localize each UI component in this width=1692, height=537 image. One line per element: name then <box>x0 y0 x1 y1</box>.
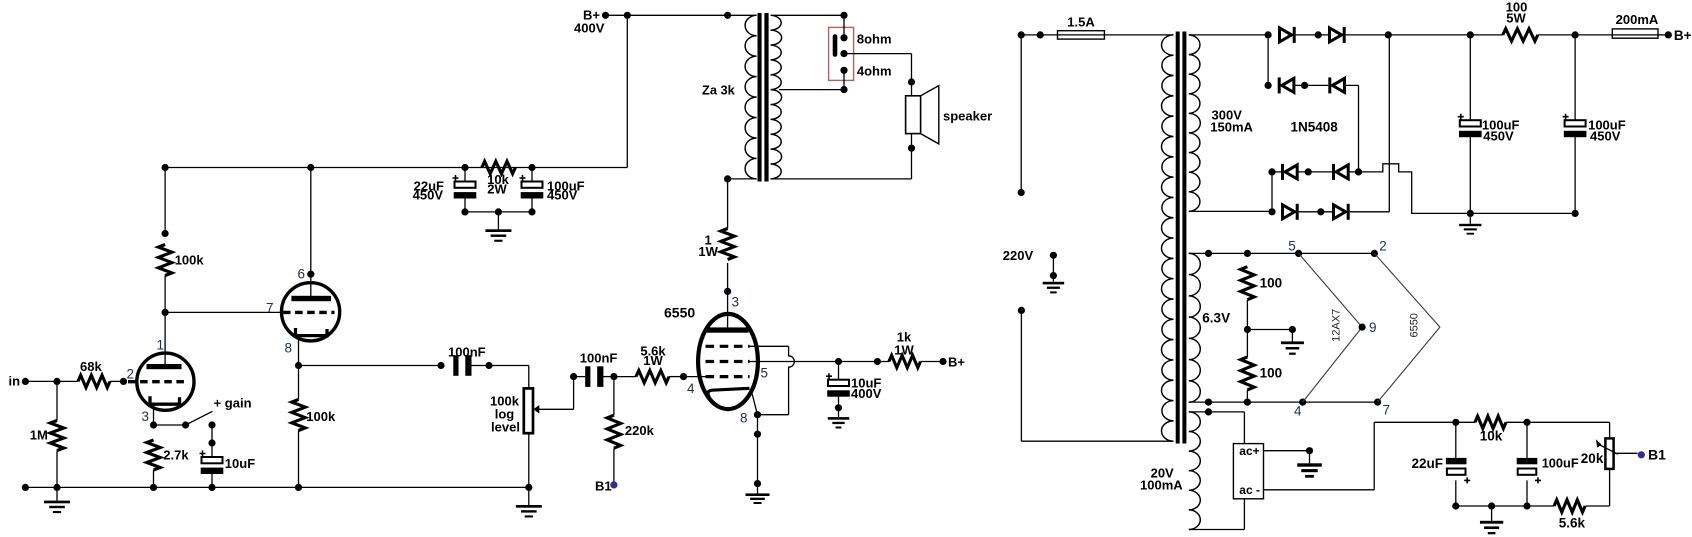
wire beam plates <box>750 345 789 347</box>
wire C1 drop <box>1469 35 1471 120</box>
ground bias <box>1480 521 1503 524</box>
node rail 2.7k <box>150 484 157 491</box>
wire V2 anode drop <box>310 168 312 297</box>
capacitor 10uF 400V <box>826 373 832 379</box>
wire ac+ to gnd <box>1264 450 1310 452</box>
node ac+ gnd <box>1306 447 1313 454</box>
pot wiper arrow <box>539 408 574 410</box>
node V2 pin6 <box>307 271 314 278</box>
diode D3 <box>1278 77 1281 93</box>
tube 6550 anode plate <box>706 327 749 332</box>
wire 68k to grid node <box>110 380 124 382</box>
node C1 top <box>1467 31 1474 38</box>
node switch left <box>182 421 189 428</box>
resistor 5.6k bias <box>1554 500 1585 512</box>
svg-text:2W: 2W <box>487 182 507 197</box>
wire pot to B1 <box>1614 452 1637 454</box>
diode D7 <box>1283 205 1295 219</box>
node bridge r4 left <box>1268 208 1275 215</box>
svg-text:4ohm: 4ohm <box>857 63 892 78</box>
node pin2 heater <box>1371 250 1378 257</box>
svg-text:1W: 1W <box>894 343 914 358</box>
wire anode supply rail <box>165 167 627 169</box>
wire 220k bottom <box>613 448 615 485</box>
wire 100k V2 bottom <box>298 431 300 488</box>
wire mains to fuse <box>1021 34 1057 36</box>
wire 4ohm to tap <box>843 70 845 89</box>
capacitor 22uF 450V <box>453 175 459 181</box>
wire beam drop with hop <box>789 346 795 414</box>
wire sec top to 8ohm <box>843 15 845 38</box>
ground mains earth <box>1043 282 1065 285</box>
node C2 top <box>1572 31 1579 38</box>
tube V2 grid <box>283 311 335 314</box>
capacitor 100uF 450V filter <box>520 175 526 181</box>
node pin5 heater <box>1295 250 1302 257</box>
svg-text:6550: 6550 <box>664 304 695 320</box>
wire OT primary bottom lead <box>728 178 757 180</box>
svg-text:100k: 100k <box>175 253 205 268</box>
node C10u top <box>208 439 215 446</box>
wire V1 grid2 coupling <box>165 311 281 313</box>
node grid V1 pin2 <box>120 378 127 385</box>
resistor 220k <box>607 415 621 448</box>
svg-text:100: 100 <box>1260 276 1283 291</box>
node pin7 heater <box>1374 399 1381 406</box>
node B+ out <box>1665 31 1672 38</box>
wire C2 drop <box>1574 35 1576 120</box>
wire beam to cathode <box>758 414 789 416</box>
svg-text:22uF: 22uF <box>1412 456 1444 471</box>
wire row2 corner <box>1345 84 1359 86</box>
svg-text:9: 9 <box>1369 320 1377 335</box>
svg-text:100uF: 100uF <box>1542 456 1579 471</box>
node 8ohm tap <box>840 34 847 41</box>
node rail V1 <box>162 164 169 171</box>
node earth top <box>1050 252 1057 259</box>
tube 6550 grid3 row <box>706 345 750 348</box>
ground 10uF 400V <box>828 417 850 420</box>
node input junction <box>53 378 60 385</box>
capacitor 100uF 450V first <box>1458 114 1464 120</box>
node B+ corner <box>624 12 631 19</box>
wire C10u400 top <box>838 362 840 380</box>
svg-text:1: 1 <box>157 338 165 353</box>
selector bar <box>833 37 838 55</box>
svg-text:3: 3 <box>142 409 150 424</box>
wire acgnd stem <box>1309 451 1311 464</box>
resistor 5.6k 1W <box>636 370 669 382</box>
wire B+ drop <box>626 15 628 167</box>
wire D3-D4 <box>1294 84 1328 86</box>
resistor 100 heater bottom <box>1241 357 1255 390</box>
svg-text:200mA: 200mA <box>1616 12 1659 27</box>
tube V2 cathode <box>296 328 328 336</box>
node pin4 heater <box>1299 399 1306 406</box>
selector red box <box>829 27 854 80</box>
resistor 2.7k <box>147 440 161 470</box>
wire pot bottom <box>528 434 530 488</box>
wire B+ rail to OT <box>627 14 756 16</box>
wire D7-D8 <box>1299 211 1332 213</box>
svg-text:400V: 400V <box>851 386 882 401</box>
wire mains L drop <box>1020 35 1022 193</box>
svg-text:7: 7 <box>266 301 274 316</box>
wire 220k top <box>613 377 615 416</box>
wire pin4 into tube <box>684 376 707 378</box>
node gnd rail C2 <box>1572 210 1579 217</box>
node D5 D6 <box>1305 168 1312 175</box>
capacitor 100uF 450V second <box>1563 114 1569 120</box>
wire row4 up <box>1350 211 1390 213</box>
svg-text:6: 6 <box>298 267 306 282</box>
wire cathode to switch <box>154 424 186 426</box>
svg-text:+ gain: + gain <box>214 396 252 411</box>
svg-text:6.3V: 6.3V <box>1202 311 1230 326</box>
wire CT to gnd <box>1247 329 1292 331</box>
tube V1 cathode <box>150 396 180 404</box>
node screen junction <box>835 358 842 365</box>
diode D4 <box>1328 77 1331 93</box>
node bridge plus <box>1385 31 1392 38</box>
wire R2 bottom <box>1246 390 1248 402</box>
wire bridge left bottom <box>1271 172 1273 212</box>
node heater top lead <box>1205 250 1212 257</box>
wire heater bottom bus <box>1189 401 1378 403</box>
node switch right <box>208 421 215 428</box>
wire junction to 5.6k <box>614 376 636 378</box>
wire C2 bottom <box>1574 137 1576 214</box>
wire C22u top <box>464 168 466 182</box>
wire bridge to caps <box>1388 34 1503 36</box>
svg-text:B+: B+ <box>948 354 965 369</box>
wire fuse to PT <box>1104 34 1173 36</box>
node in terminal <box>22 378 29 385</box>
svg-text:7: 7 <box>1383 403 1391 418</box>
svg-text:100nF: 100nF <box>448 345 486 360</box>
svg-text:B+: B+ <box>1674 28 1692 43</box>
node speaker tap mid <box>840 50 847 57</box>
wire junction to R 68k <box>57 380 78 382</box>
wire ac- to filter <box>1264 489 1375 491</box>
diode D2 <box>1330 28 1342 42</box>
node rail C100u <box>528 164 535 171</box>
wire mains N <box>1020 310 1022 441</box>
capacitor 100uF bias <box>1517 458 1538 464</box>
tube V1 envelope <box>137 353 194 410</box>
svg-text:5: 5 <box>1288 239 1296 254</box>
transformer PT core <box>1176 32 1180 444</box>
node bridge r1 left <box>1265 31 1272 38</box>
resistor 10k bias <box>1475 416 1506 428</box>
wire bias gnd rail <box>1456 505 1527 507</box>
wire heater top bus <box>1189 252 1375 254</box>
wire 5.6k to pin4 <box>669 376 684 378</box>
transformer OT core <box>758 13 762 182</box>
node heater bottom lead <box>1205 399 1212 406</box>
potentiometer 100k log level body <box>524 388 533 433</box>
node mains N terminal <box>1018 307 1025 314</box>
ground filter <box>485 229 511 232</box>
wire tap to speaker <box>844 53 912 55</box>
node 6550 pin4 <box>680 373 687 380</box>
svg-text:450V: 450V <box>547 188 578 203</box>
fuse 200mA <box>1612 34 1658 36</box>
wire C100u top <box>531 168 533 182</box>
node C100n1 right <box>485 362 492 369</box>
capacitor 100nF second <box>585 366 590 387</box>
wire R to C2 <box>1538 34 1613 36</box>
wire R1k to B+ <box>921 361 944 363</box>
svg-text:100k: 100k <box>306 409 336 424</box>
node rail C10u <box>208 484 215 491</box>
svg-text:12AX7: 12AX7 <box>1331 309 1343 342</box>
diode D8 <box>1334 205 1346 219</box>
wire ground stem left <box>56 487 58 500</box>
svg-text:6550: 6550 <box>1408 313 1420 337</box>
node grid 6550 junction <box>610 373 617 380</box>
resistor 1ohm 1W <box>721 229 735 260</box>
wire C1 bottom <box>1469 137 1471 214</box>
node heater CT <box>1244 326 1251 333</box>
svg-text:8ohm: 8ohm <box>857 31 892 46</box>
node D3 D4 <box>1301 82 1308 89</box>
wire 6550 chevron <box>1374 253 1440 402</box>
tube V2 anode plate <box>291 296 331 301</box>
wire C100n2 right <box>601 376 614 378</box>
node rail 100k V2 <box>295 484 302 491</box>
resistor 1k 1W <box>889 355 921 367</box>
wire capnode down <box>211 443 213 457</box>
wire fuse to B+ <box>1658 34 1668 36</box>
wire cathode exit <box>752 392 758 415</box>
wire rail to R100k a <box>164 168 166 234</box>
node D7 D8 <box>1317 208 1324 215</box>
transformer PT 20V winding <box>1189 412 1201 530</box>
svg-text:ac+: ac+ <box>1239 444 1259 458</box>
node rail V2 <box>307 164 314 171</box>
wire HV bottom lead <box>1189 210 1272 212</box>
svg-text:8: 8 <box>285 341 293 356</box>
node V1 anode <box>162 309 169 316</box>
svg-text:level: level <box>491 420 520 435</box>
svg-text:450V: 450V <box>1590 128 1621 143</box>
wire bridge left top <box>1267 35 1269 86</box>
node rail 1M <box>53 484 60 491</box>
svg-text:4: 4 <box>687 381 695 396</box>
resistor 1M <box>50 421 64 451</box>
ground ac+ <box>1297 463 1322 466</box>
wire 2.7k bottom <box>153 470 155 487</box>
speaker body <box>906 96 921 134</box>
ground psu <box>1459 224 1481 226</box>
wire C10u gnd stem <box>838 408 840 417</box>
node 20V top <box>1205 408 1212 415</box>
transformer PT primary winding <box>1162 35 1174 441</box>
node B1 right <box>1638 451 1645 458</box>
resistor 100k cathode V2 <box>292 400 306 431</box>
resistor 100 5W <box>1503 29 1538 41</box>
speaker horn <box>921 86 939 144</box>
svg-text:10uF: 10uF <box>225 456 255 471</box>
node speaker top <box>908 78 915 85</box>
wire D1-D2 <box>1296 34 1328 36</box>
node heater R1 top <box>1244 250 1251 257</box>
wire n2 to pot <box>1527 421 1610 423</box>
node B+ terminal <box>602 12 609 19</box>
wire gnd stem mid <box>528 487 530 505</box>
svg-text:2: 2 <box>1379 239 1387 254</box>
svg-text:100mA: 100mA <box>1140 478 1183 493</box>
wire switch to cap node <box>211 425 213 443</box>
wire V1 cathode down <box>153 404 155 425</box>
svg-text:5.6k: 5.6k <box>1559 516 1586 531</box>
diode D6 <box>1332 164 1335 180</box>
transformer PT 6.3V winding <box>1189 253 1201 402</box>
svg-text:B1: B1 <box>595 478 612 493</box>
tube 6550 envelope <box>698 314 758 409</box>
pot 20k wiper <box>1598 444 1618 454</box>
node bias n2 <box>1523 419 1530 426</box>
wire g2 to node <box>750 361 839 363</box>
wire D6 to r3 node <box>1348 171 1358 173</box>
wire C100b bottom <box>1526 480 1528 506</box>
tube V1 anode plate <box>147 364 182 369</box>
wire D5-D6 <box>1297 171 1332 173</box>
wire to C100n2 <box>574 376 586 378</box>
transformer OT primary winding <box>745 15 757 179</box>
node bias gnd mid <box>1488 502 1495 509</box>
wire cathode ground drop <box>757 415 759 484</box>
node CT gnd <box>1289 326 1296 333</box>
wire cath gnd stem <box>757 484 759 494</box>
tube V2 envelope <box>282 283 340 341</box>
node 4ohm tap <box>840 67 847 74</box>
wire C10u bottom <box>211 474 213 488</box>
node C100n1 left <box>437 362 444 369</box>
svg-text:Za 3k: Za 3k <box>702 82 736 97</box>
node cathode terminal <box>754 431 761 438</box>
node bias n4 <box>1452 502 1459 509</box>
node fuse in <box>1037 31 1044 38</box>
node B+ screen terminal <box>939 358 946 365</box>
svg-text:220V: 220V <box>1003 248 1034 263</box>
wire in to junction <box>25 380 57 382</box>
node filter gnd left <box>461 208 468 215</box>
wire 20V bottom lead <box>1189 529 1245 531</box>
node gnd rail C1 <box>1467 210 1474 217</box>
diode D5 <box>1281 164 1284 180</box>
svg-text:2.7k: 2.7k <box>163 448 189 463</box>
node R100k top <box>162 230 169 237</box>
wire OT sec tap lead <box>779 89 844 91</box>
svg-text:8: 8 <box>740 411 748 426</box>
svg-text:400V: 400V <box>574 21 605 36</box>
svg-text:450V: 450V <box>413 188 444 203</box>
wire 1M top <box>56 381 58 420</box>
wire 1ohm top <box>727 179 729 229</box>
node C100n2 left <box>570 373 577 380</box>
wire n1 to 10k <box>1456 421 1475 423</box>
wire R100k to anode node <box>164 276 166 313</box>
svg-text:100nF: 100nF <box>580 350 618 365</box>
rectifier box <box>1233 444 1263 499</box>
node speaker bottom <box>908 145 915 152</box>
node D1 D2 <box>1315 31 1322 38</box>
node heater R2 bottom <box>1244 399 1251 406</box>
wire ground rail left <box>25 486 528 488</box>
svg-text:ac -: ac - <box>1239 483 1260 497</box>
svg-text:20k: 20k <box>1581 451 1604 466</box>
node B1 left terminal <box>610 481 617 488</box>
node bridge r2 left <box>1265 82 1272 89</box>
wire V2 cathode down <box>298 335 300 365</box>
ground heater CT <box>1281 341 1304 344</box>
wire 20V top lead <box>1189 411 1245 413</box>
svg-text:1W: 1W <box>643 353 663 368</box>
wire HV top lead <box>1189 34 1268 36</box>
wire r3 lead <box>1272 171 1281 173</box>
potentiometer 20k body <box>1605 438 1613 469</box>
svg-text:2: 2 <box>127 367 135 382</box>
node pin9 heater <box>1359 324 1366 331</box>
wire speaker bottom <box>911 134 913 179</box>
node cathode gnd <box>754 480 761 487</box>
wire to pot top <box>489 365 529 367</box>
svg-text:5W: 5W <box>1506 11 1526 26</box>
wire R1 bottom <box>1246 300 1248 357</box>
tube V1 grid <box>128 380 187 383</box>
node 6550 cathode junction <box>754 411 761 418</box>
capacitor 22uF bias <box>1446 458 1467 464</box>
wire bias gnd stem <box>1491 506 1493 521</box>
node OT primary top <box>724 12 731 19</box>
svg-text:150mA: 150mA <box>1210 119 1253 134</box>
node bias n3 <box>1523 502 1530 509</box>
svg-text:in: in <box>9 374 21 389</box>
node mains L end <box>1018 189 1025 196</box>
resistor 10k 2W <box>482 161 515 173</box>
wire C22b bottom <box>1455 480 1457 506</box>
wire cathode to C100n1 <box>299 365 442 367</box>
wire filter ground bar <box>465 211 532 213</box>
wire C22b top <box>1455 422 1457 458</box>
node C10u400 gnd <box>835 404 842 411</box>
node rail left end <box>22 484 29 491</box>
svg-text:68k: 68k <box>80 359 102 374</box>
wire C100u bottom <box>531 198 533 212</box>
wire 12AX7 chevron <box>1299 253 1363 402</box>
svg-text:1.5A: 1.5A <box>1067 14 1095 29</box>
svg-text:speaker: speaker <box>943 108 992 123</box>
wire 1M bottom <box>56 451 58 488</box>
ground 6550 cathode <box>746 493 770 496</box>
svg-text:1W: 1W <box>698 244 718 259</box>
wire B+ to corner <box>606 14 628 16</box>
wire psu gnd stem <box>1469 213 1471 223</box>
transformer OT secondary winding <box>771 15 782 179</box>
tube 6550 cathode <box>708 388 750 397</box>
capacitor 100nF first <box>453 355 458 376</box>
svg-text:3: 3 <box>732 295 740 310</box>
node mains L terminal <box>1018 31 1025 38</box>
wire wiper up <box>573 377 575 410</box>
wire OT sec top lead <box>771 14 844 16</box>
wire 5.6k to n3 <box>1527 505 1554 507</box>
fuse 1.5A <box>1058 34 1105 36</box>
node rail C22u <box>461 164 468 171</box>
wire screen to R1k <box>839 361 890 363</box>
